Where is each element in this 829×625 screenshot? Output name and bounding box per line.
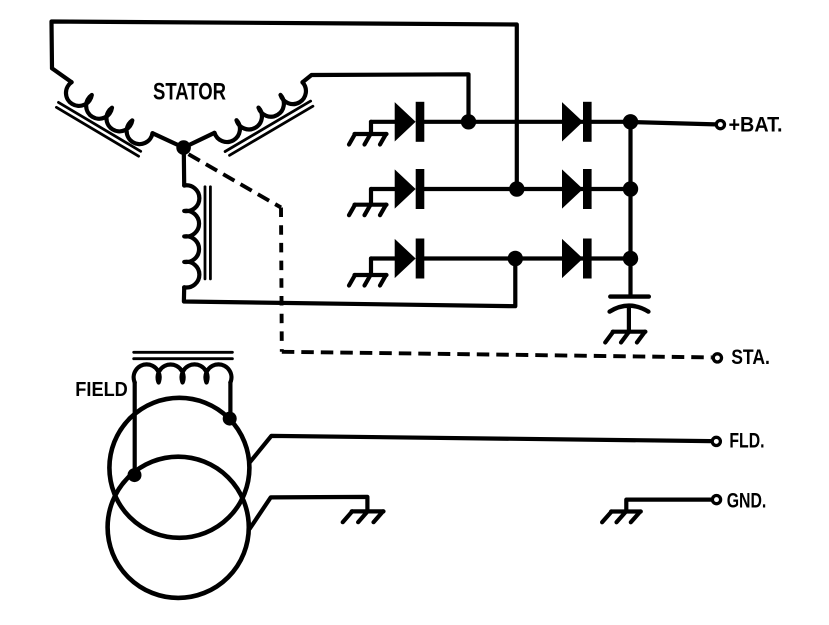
svg-text:+BAT.: +BAT. xyxy=(729,113,783,137)
svg-text:FIELD: FIELD xyxy=(75,379,128,401)
svg-text:STA.: STA. xyxy=(731,345,770,369)
svg-text:GND.: GND. xyxy=(727,488,767,512)
svg-text:FLD.: FLD. xyxy=(729,429,764,453)
svg-text:STATOR: STATOR xyxy=(153,79,226,106)
